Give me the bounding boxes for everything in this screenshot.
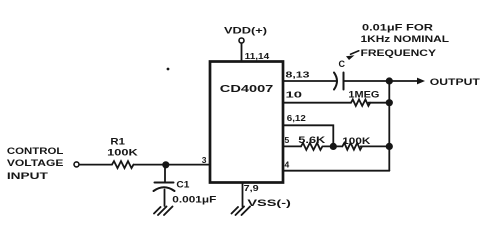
svg-text:VOLTAGE: VOLTAGE: [7, 158, 64, 169]
svg-text:10: 10: [286, 90, 303, 100]
svg-text:FREQUENCY: FREQUENCY: [361, 48, 437, 58]
svg-text:5.6K: 5.6K: [298, 135, 326, 145]
svg-text:C1: C1: [176, 180, 189, 190]
svg-text:100K: 100K: [342, 136, 371, 146]
svg-text:8,13: 8,13: [286, 69, 310, 79]
svg-text:R1: R1: [110, 136, 125, 146]
svg-text:6,12: 6,12: [287, 113, 306, 123]
svg-text:3: 3: [202, 155, 207, 165]
svg-text:0.01μF FOR: 0.01μF FOR: [362, 23, 434, 33]
svg-text:5: 5: [285, 135, 290, 145]
svg-text:7,9: 7,9: [244, 183, 259, 193]
svg-text:1MEG: 1MEG: [348, 90, 379, 100]
svg-text:VSS(-): VSS(-): [247, 198, 291, 209]
svg-text:CD4007: CD4007: [220, 83, 274, 95]
svg-text:C: C: [339, 59, 346, 69]
svg-text:4: 4: [285, 159, 290, 169]
svg-text:0.001μF: 0.001μF: [172, 194, 216, 205]
svg-text:11,14: 11,14: [245, 51, 270, 61]
svg-text:CONTROL: CONTROL: [7, 146, 64, 157]
svg-text:100K: 100K: [107, 148, 138, 158]
svg-text:1KHz NOMINAL: 1KHz NOMINAL: [361, 34, 450, 44]
svg-text:OUTPUT: OUTPUT: [430, 77, 480, 88]
svg-text:INPUT: INPUT: [7, 171, 48, 182]
svg-text:VDD(+): VDD(+): [224, 26, 267, 36]
